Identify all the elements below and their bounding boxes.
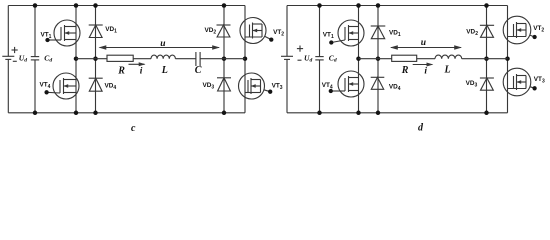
junction VD leg top (c) <box>93 3 98 8</box>
wire top rail (d) <box>287 5 508 7</box>
junction right leg mid (c) <box>243 56 248 61</box>
svg-text:Ud: Ud <box>304 53 312 63</box>
junction VD right top (d) <box>484 3 489 8</box>
current arrow i (c) <box>129 63 145 65</box>
svg-text:L: L <box>161 65 168 76</box>
svg-text:i: i <box>424 66 427 76</box>
junction VT leg mid (c) <box>74 56 79 61</box>
wire right leg (d) <box>507 6 509 113</box>
transistor VT3 <box>239 73 265 99</box>
label - battery negative (c) <box>13 60 17 62</box>
wire VD right leg (c) <box>223 6 225 113</box>
inductor L (c) <box>151 55 175 59</box>
diode VD2 <box>217 24 231 26</box>
wire VT leg left (d) <box>358 6 360 113</box>
junction VT leg bottom (d) <box>356 111 361 116</box>
junction VD leg top (d) <box>376 3 381 8</box>
wire right leg (c) <box>244 6 246 113</box>
wire left rail lower (c) <box>7 59 9 112</box>
transistor VT2 <box>240 18 266 44</box>
junction right leg mid (d) <box>505 56 510 61</box>
wire top rail (c) <box>8 5 245 7</box>
svg-text:VT4: VT4 <box>40 81 51 90</box>
wire capacitor leg lower (d) <box>319 60 321 113</box>
junction VD right bottom (c) <box>222 111 227 116</box>
junction cap top (c) <box>33 3 38 8</box>
capacitor C (c) <box>195 52 197 66</box>
junction VD leg mid (d) <box>376 56 381 61</box>
wire VD right leg (d) <box>486 6 488 113</box>
svg-text:d: d <box>418 123 424 134</box>
label - battery negative (d) <box>298 59 302 61</box>
junction cap bottom (d) <box>317 111 322 116</box>
junction VD right bottom (d) <box>484 111 489 116</box>
svg-text:VD4: VD4 <box>389 84 401 93</box>
label + battery positive (d) <box>297 48 303 50</box>
wire bottom rail (c) <box>8 112 245 114</box>
wire load line segment 1 (c) <box>76 58 107 60</box>
wire left rail upper (c) <box>7 6 9 57</box>
junction VT leg top (c) <box>74 3 79 8</box>
current arrow i (d) <box>413 64 433 66</box>
svg-text:c: c <box>131 123 136 134</box>
inductor L (d) <box>435 55 462 59</box>
wire VT leg left (c) <box>75 6 77 113</box>
wire capacitor leg lower (c) <box>34 60 36 113</box>
svg-text:VT3: VT3 <box>534 76 545 85</box>
svg-text:Cd: Cd <box>44 53 52 63</box>
svg-text:VT2: VT2 <box>533 25 544 34</box>
transistor VT4 (d) <box>338 71 364 97</box>
capacitor Cd (c) <box>31 56 39 58</box>
wire capacitor leg upper (d) <box>319 6 321 57</box>
wire capacitor leg upper (c) <box>34 6 36 57</box>
svg-text:Ud: Ud <box>19 53 27 63</box>
diode VD4 (d) <box>371 76 385 78</box>
wire load line segment 3 (c) <box>175 58 196 60</box>
wire load line segment 4 (c) <box>200 58 245 60</box>
wire left rail lower (d) <box>286 59 288 112</box>
junction VT leg mid (d) <box>356 56 361 61</box>
junction VD leg bottom (d) <box>376 111 381 116</box>
junction VD leg bottom (c) <box>93 111 98 116</box>
voltage arrow u (d) <box>391 47 461 49</box>
junction VT leg bottom (c) <box>74 111 79 116</box>
label + battery positive (c) <box>12 49 18 51</box>
voltage arrow u (c) <box>100 47 220 49</box>
svg-text:VD1: VD1 <box>389 29 401 38</box>
battery Ud (c) <box>2 55 14 57</box>
wire VD leg left (d) <box>377 6 379 113</box>
svg-text:VD2: VD2 <box>205 27 217 36</box>
svg-text:u: u <box>421 38 426 48</box>
wire load line segment 3 (d) <box>462 58 508 60</box>
svg-text:VD1: VD1 <box>105 26 117 35</box>
svg-text:R: R <box>401 65 409 76</box>
diode VD2 (d) <box>480 24 494 26</box>
svg-text:VD3: VD3 <box>203 82 215 91</box>
capacitor Cd (d) <box>315 56 323 58</box>
svg-text:Cd: Cd <box>329 53 337 63</box>
transistor VT4 <box>53 73 79 99</box>
battery Ud (d) <box>281 55 293 57</box>
wire load line segment 2 (d) <box>417 58 435 60</box>
junction VT leg top (d) <box>356 3 361 8</box>
junction VD leg mid (c) <box>93 56 98 61</box>
svg-text:VT4: VT4 <box>322 82 333 91</box>
svg-text:VT3: VT3 <box>272 83 283 92</box>
svg-text:VD3: VD3 <box>466 80 478 89</box>
svg-text:C: C <box>195 65 202 76</box>
diode VD1 (d) <box>371 25 386 27</box>
transistor VT1 (d) <box>338 20 364 46</box>
diode VD4 <box>89 77 103 79</box>
transistor VT2 (d) <box>503 16 531 44</box>
wire load line segment 1 (d) <box>359 58 392 60</box>
diode VD3 (d) <box>480 77 494 79</box>
svg-text:L: L <box>444 65 451 76</box>
wire bottom rail (d) <box>287 112 508 114</box>
diode VD1 <box>89 24 103 26</box>
transistor VT3 (d) <box>503 68 531 96</box>
svg-text:R: R <box>117 65 125 76</box>
junction cap bottom (c) <box>33 111 38 116</box>
junction cap top (d) <box>317 3 322 8</box>
svg-text:VT2: VT2 <box>273 29 284 38</box>
diode VD3 <box>217 77 231 79</box>
svg-text:i: i <box>140 67 143 77</box>
wire left rail upper (d) <box>286 6 288 57</box>
junction VD right mid (c) <box>222 56 227 61</box>
junction VD right mid (d) <box>484 56 489 61</box>
resistor R (d) <box>392 55 417 61</box>
wire VD leg left (c) <box>95 6 97 113</box>
svg-text:u: u <box>160 39 165 49</box>
svg-text:VT1: VT1 <box>323 31 334 40</box>
resistor R (c) <box>107 55 133 61</box>
transistor VT1 <box>54 20 80 46</box>
svg-text:VD4: VD4 <box>105 83 117 92</box>
svg-text:VD2: VD2 <box>466 29 478 38</box>
wire load line segment 2 (c) <box>133 58 151 60</box>
junction VD right top (c) <box>222 3 227 8</box>
